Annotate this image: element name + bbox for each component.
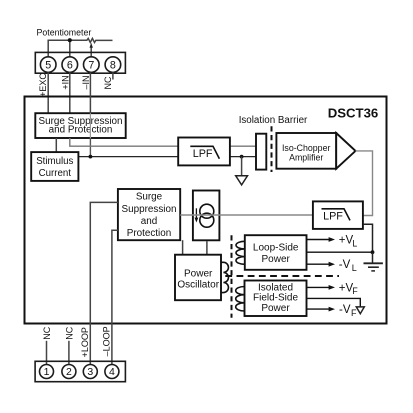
svg-text:and Protection: and Protection bbox=[49, 125, 113, 136]
svg-text:1: 1 bbox=[44, 366, 50, 378]
svg-text:-V: -V bbox=[339, 304, 351, 316]
svg-text:3: 3 bbox=[87, 366, 93, 378]
svg-text:NC: NC bbox=[103, 76, 113, 89]
svg-text:F: F bbox=[352, 286, 358, 296]
svg-text:+V: +V bbox=[339, 235, 354, 247]
svg-text:4: 4 bbox=[109, 366, 115, 378]
svg-text:L: L bbox=[352, 263, 357, 273]
svg-text:Suppression: Suppression bbox=[122, 204, 177, 215]
svg-text:2: 2 bbox=[66, 366, 72, 378]
svg-text:Surge: Surge bbox=[136, 192, 163, 203]
svg-text:+V: +V bbox=[339, 283, 354, 295]
svg-text:L: L bbox=[352, 238, 357, 248]
svg-text:NC: NC bbox=[42, 326, 52, 339]
svg-text:Power: Power bbox=[261, 303, 290, 314]
svg-text:–LOOP: –LOOP bbox=[102, 326, 112, 356]
svg-text:NC: NC bbox=[65, 326, 75, 339]
svg-text:Amplifier: Amplifier bbox=[289, 153, 323, 163]
svg-text:–IN: –IN bbox=[81, 75, 91, 89]
svg-text:-V: -V bbox=[339, 259, 351, 271]
svg-text:+EXC: +EXC bbox=[38, 73, 48, 97]
svg-text:8: 8 bbox=[110, 59, 116, 71]
svg-text:Loop-Side: Loop-Side bbox=[253, 243, 299, 254]
svg-text:LPF: LPF bbox=[323, 211, 343, 223]
svg-text:7: 7 bbox=[88, 59, 94, 71]
svg-text:F: F bbox=[351, 308, 357, 318]
svg-text:+IN: +IN bbox=[61, 75, 71, 89]
svg-text:and: and bbox=[141, 216, 157, 227]
svg-text:Power: Power bbox=[262, 254, 291, 265]
svg-text:+LOOP: +LOOP bbox=[80, 327, 90, 357]
svg-text:5: 5 bbox=[45, 59, 51, 71]
svg-text:Protection: Protection bbox=[127, 228, 171, 239]
svg-text:Potentiometer: Potentiometer bbox=[37, 27, 92, 37]
svg-text:Oscillator: Oscillator bbox=[177, 280, 219, 291]
svg-text:Current: Current bbox=[39, 168, 72, 179]
svg-text:Isolation Barrier: Isolation Barrier bbox=[239, 115, 308, 126]
svg-text:LPF: LPF bbox=[193, 148, 213, 160]
svg-text:Iso-Chopper: Iso-Chopper bbox=[282, 143, 330, 153]
svg-text:Stimulus: Stimulus bbox=[36, 156, 73, 167]
svg-text:6: 6 bbox=[67, 59, 73, 71]
svg-text:DSCT36: DSCT36 bbox=[328, 106, 379, 121]
svg-text:Power: Power bbox=[184, 269, 213, 280]
